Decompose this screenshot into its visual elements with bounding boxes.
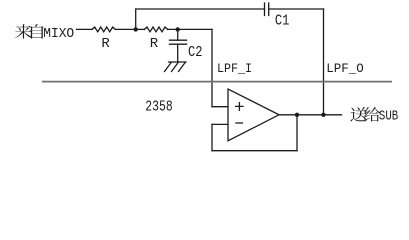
node junction dot B — [176, 27, 180, 31]
label 送给 (output port text) — [350, 107, 380, 121]
wire feedback right vertical — [296, 115, 298, 151]
svg-text:C2: C2 — [188, 45, 203, 61]
capacitor C2 — [170, 40, 187, 44]
resistor R1 — [92, 27, 115, 32]
label 来自 (input port text) — [15, 24, 44, 38]
node output dot — [295, 113, 299, 117]
wire node A to R2 — [136, 28, 145, 30]
wire input — [77, 28, 93, 30]
wire to op-amp plus input — [212, 106, 228, 108]
svg-text:SUB: SUB — [379, 110, 398, 125]
ground — [165, 62, 187, 72]
wire C2 stem top — [177, 29, 179, 40]
node LPF_O dot — [321, 113, 325, 117]
wire feedback left vertical — [211, 124, 213, 150]
wire output — [279, 114, 342, 116]
resistor R2 — [144, 27, 167, 32]
node junction dot A — [134, 27, 138, 31]
svg-text:R: R — [101, 36, 110, 52]
op-amp U1 — [228, 89, 279, 141]
capacitor C1 — [265, 3, 269, 16]
svg-text:C1: C1 — [275, 13, 290, 29]
svg-text:2358: 2358 — [145, 99, 172, 116]
wire top horizontal to C1 — [136, 8, 265, 10]
wire minus input — [212, 123, 228, 125]
op-amp minus sign — [236, 122, 242, 124]
wire right vertical LPF_O — [323, 9, 325, 115]
wire top loop left vertical — [135, 9, 137, 29]
wire R1 to node A — [115, 28, 135, 30]
wire R2 to LPF_I — [168, 28, 212, 30]
svg-text:R: R — [150, 36, 159, 52]
wire C1 to right corner — [269, 8, 324, 10]
op-amp plus sign — [236, 103, 243, 111]
svg-text:LPF_O: LPF_O — [326, 61, 364, 76]
wire C2 stem bottom — [177, 44, 179, 62]
svg-text:MIXO: MIXO — [43, 27, 74, 42]
wire LPF_I vertical — [211, 29, 213, 106]
divider line — [42, 81, 392, 83]
svg-text:LPF_I: LPF_I — [217, 61, 252, 76]
wire feedback bottom — [212, 150, 297, 152]
